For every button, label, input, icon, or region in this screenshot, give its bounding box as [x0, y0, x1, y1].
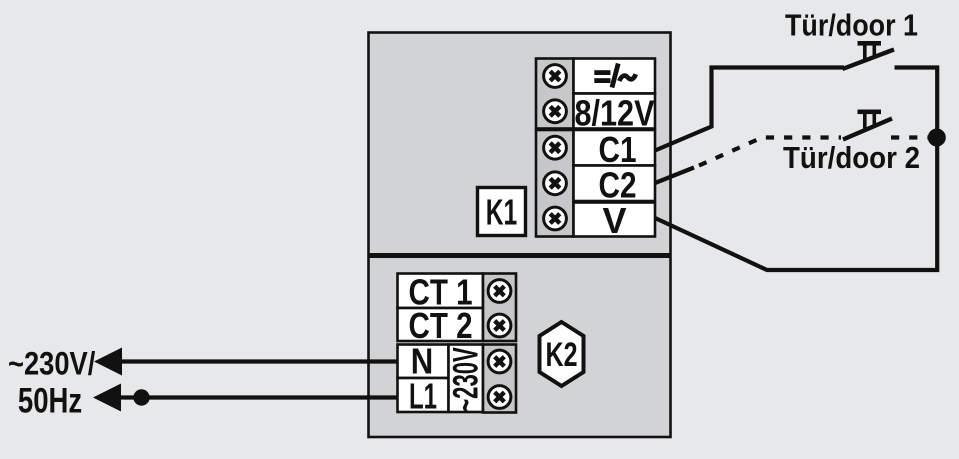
terminal V [574, 203, 656, 237]
screw terminal C1 [544, 136, 567, 159]
svg-text:K2: K2 [546, 336, 578, 374]
svg-text:V: V [602, 200, 626, 241]
wire L1 supply [93, 384, 399, 412]
terminal C1 [574, 130, 656, 166]
relay label K2 hexagon [540, 322, 584, 386]
door switch S2 [843, 110, 892, 140]
terminal block K2 screw strip lower [483, 345, 516, 413]
wire door switch 2 dashed to node [891, 135, 930, 139]
terminal 8/12V [574, 94, 656, 129]
label ~230V/ 50Hz [8, 346, 95, 421]
relay label K1 [478, 188, 526, 236]
terminal block K2 screw strip upper [483, 274, 516, 342]
door switch S1 [843, 41, 895, 69]
svg-text:50Hz: 50Hz [18, 382, 82, 421]
wire N supply [94, 348, 399, 376]
terminal L1 [398, 378, 449, 412]
wire C1 to door switch 1 [655, 68, 844, 151]
svg-text:8/12V: 8/12V [575, 93, 655, 134]
terminal block K1 screw strip upper [536, 59, 574, 129]
wire door switch 1 to node [895, 68, 938, 134]
junction node [928, 129, 946, 147]
screw terminal =/~ [544, 65, 567, 88]
svg-text:~230V/: ~230V/ [8, 346, 95, 382]
terminal CT 1 [398, 274, 484, 309]
terminal block K1 screw strip lower [536, 130, 574, 237]
terminal =/~ [574, 59, 656, 94]
svg-text:Tür/door 2: Tür/door 2 [783, 140, 920, 175]
screw terminal V [544, 207, 567, 230]
wire C2 dashed continuation [699, 138, 841, 166]
device enclosure [369, 33, 671, 438]
svg-text:~230V: ~230V [447, 347, 486, 412]
wire node to V terminal [654, 133, 937, 270]
terminal N [398, 345, 449, 379]
junction dot L1 [133, 389, 149, 405]
label ~230V vertical [449, 345, 484, 413]
screw terminal CT2 [488, 314, 511, 337]
svg-text:Tür/door 1: Tür/door 1 [785, 8, 918, 43]
screw terminal L1 [488, 386, 511, 409]
section divider [368, 253, 671, 258]
svg-text:K1: K1 [486, 192, 518, 233]
screw terminal CT1 [488, 280, 511, 303]
screw terminal N [488, 350, 511, 373]
terminal C2 [574, 166, 656, 202]
svg-text:L1: L1 [409, 376, 437, 417]
screw terminal C2 [544, 172, 567, 195]
wire C2 solid stub [655, 168, 694, 184]
screw terminal 8/12V [544, 100, 567, 123]
terminal CT 2 [398, 308, 484, 341]
